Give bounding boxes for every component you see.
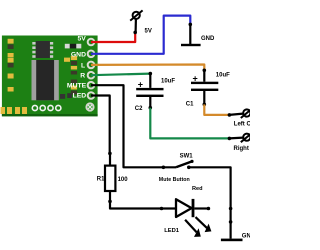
pin pad GND: [88, 51, 95, 58]
pin pad R: [88, 72, 95, 79]
svg-text:Red: Red: [192, 186, 203, 192]
SMD resistor on board: [65, 44, 82, 49]
wire GND (blue): [91, 16, 190, 54]
SOIC-8 chip U2: [32, 41, 53, 58]
board bottom edge: [2, 114, 98, 116]
svg-text:GND: GND: [201, 36, 215, 42]
wire L (orange): [91, 65, 204, 71]
junction dot resistor bottom: [108, 200, 112, 204]
wire to bottom ground (black): [230, 209, 232, 239]
svg-text:C1: C1: [186, 102, 194, 108]
bottom through-holes: [32, 105, 37, 110]
wire switch to LED cathode (black): [189, 167, 231, 208]
junction dot C2 top: [149, 72, 153, 76]
junction dot LED left pin: [160, 207, 164, 211]
junction dot C1 top: [203, 69, 207, 73]
pin pad 5V: [88, 39, 95, 46]
junction dot C1 bottom: [203, 103, 207, 107]
switch SW1: [176, 160, 194, 169]
mid SMD pad column: [71, 56, 77, 60]
wire C1 to Left Ch (orange): [204, 104, 229, 115]
LED emission arrow 1: [185, 220, 201, 237]
svg-text:Mute Button: Mute Button: [159, 177, 190, 183]
capacitor C2: [136, 74, 163, 108]
LED LED1: [176, 199, 211, 237]
svg-text:L: L: [81, 62, 85, 69]
wire 5V (red): [91, 32, 135, 42]
Left Ch loose-end connector: [229, 108, 252, 118]
svg-text:+: +: [138, 80, 143, 90]
svg-text:R1: R1: [97, 177, 105, 183]
junction dot left-ch wire end: [228, 113, 232, 117]
5V loose-end connector J1: [130, 10, 142, 32]
left SMD pad column: [8, 39, 14, 44]
junction dot switch left pin: [162, 166, 166, 170]
svg-text:10uF: 10uF: [161, 78, 175, 84]
junction dot 5V wire end: [133, 31, 137, 35]
svg-text:GND: GND: [242, 234, 250, 240]
pin pad L: [88, 62, 95, 69]
svg-text:Left Ch: Left Ch: [234, 121, 250, 127]
bottom-left SMD pads: [1, 107, 6, 114]
svg-text:+: +: [193, 73, 198, 83]
junction dot right-ch wire end: [228, 137, 232, 141]
svg-text:C2: C2: [135, 106, 143, 112]
junction dot GND wire end: [189, 23, 193, 27]
mounting hole: [86, 103, 93, 110]
svg-text:Right Ch: Right Ch: [234, 146, 251, 152]
small SMD chips near main chip: [60, 94, 65, 99]
svg-text:MUTE: MUTE: [67, 83, 87, 90]
Right Ch loose-end connector: [229, 132, 252, 142]
wire LED pin (black): [91, 96, 110, 154]
wire C2 to Right Ch (green): [150, 108, 229, 139]
svg-text:R: R: [80, 72, 85, 79]
LED emission arrow 2: [196, 217, 212, 232]
wire resistor to LED anode (black): [110, 201, 176, 208]
resistor R1: [105, 153, 115, 201]
svg-text:SW1: SW1: [180, 154, 194, 160]
svg-text:5V: 5V: [77, 35, 86, 42]
junction dot gnd wire: [229, 220, 233, 224]
wire MUTE (black): [91, 85, 176, 167]
main chip U3: [32, 60, 59, 100]
junction dot LED right pin: [207, 207, 211, 211]
junction dot C2 bottom: [149, 106, 153, 110]
ground symbol top: [181, 24, 201, 46]
pin pad MUTE: [88, 82, 95, 89]
svg-text:10uF: 10uF: [216, 72, 230, 78]
wire R (green): [91, 74, 150, 76]
svg-text:LED: LED: [73, 92, 87, 99]
junction dot resistor top: [108, 152, 112, 156]
ground symbol bottom: [221, 239, 243, 242]
capacitor C1: [191, 70, 218, 104]
PCB module U1 (audio decoder board): [1, 35, 98, 116]
svg-text:5V: 5V: [145, 29, 152, 35]
svg-text:GND: GND: [71, 51, 86, 58]
SMD pad on board: [64, 58, 70, 62]
board substrate: [2, 36, 98, 117]
pin pad LED: [88, 92, 95, 99]
svg-text:100: 100: [118, 177, 129, 183]
junction dot LED row / gnd branch: [229, 207, 233, 211]
svg-text:LED1: LED1: [164, 228, 180, 234]
